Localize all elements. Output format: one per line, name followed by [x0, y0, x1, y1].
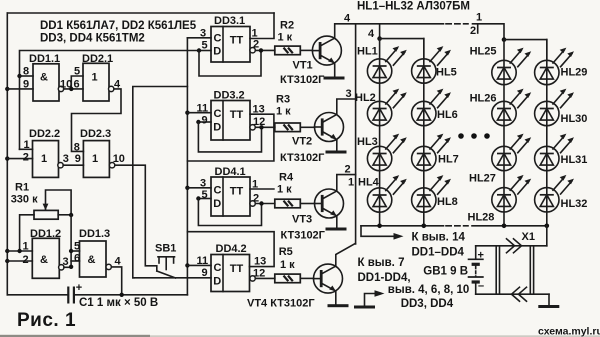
- svg-text:D: D: [213, 198, 221, 210]
- svg-text:HL28: HL28: [468, 212, 495, 224]
- transistor VT3: [315, 189, 344, 218]
- svg-text:выв. 4, 6, 8, 10: выв. 4, 6, 8, 10: [388, 284, 470, 296]
- svg-text:DD1–DD4: DD1–DD4: [412, 247, 465, 259]
- resistor R4: [275, 172, 301, 208]
- ground VT1: [324, 77, 345, 80]
- node: junction dot riser / DD1.3 pin5: [69, 249, 73, 253]
- LED HL28: [492, 175, 531, 212]
- wire: bottom line C1 right plate to clock rail: [74, 294, 187, 296]
- ground VT3: [326, 228, 347, 231]
- svg-text:R1: R1: [15, 182, 29, 194]
- wire: bottom line rail1 to C1 left plate: [7, 294, 68, 296]
- svg-text:2: 2: [253, 39, 259, 51]
- wire: line A from SB1 riser to clock rail (y=86.5): [133, 87, 188, 278]
- node: junction dot rail1 / DD2.2 pin2: [5, 156, 9, 160]
- svg-text:1: 1: [476, 12, 482, 24]
- node: junction dot pin2 node DD3.1: [259, 48, 263, 52]
- svg-text:330 к: 330 к: [11, 194, 38, 206]
- svg-text:1 к: 1 к: [277, 184, 292, 196]
- svg-text:R5: R5: [279, 246, 293, 258]
- wire: DD4.1 pin3 from rail: [187, 187, 211, 189]
- svg-text:D: D: [213, 276, 221, 288]
- svg-text:9: 9: [202, 115, 208, 127]
- svg-text:DD1-DD4,: DD1-DD4,: [358, 272, 411, 284]
- node: junction dot DD1.3 pin4 / bottom line: [120, 293, 124, 297]
- wire: anode bottom bus right part: [472, 225, 547, 227]
- arrowhead of R1 wiper: [43, 204, 49, 211]
- svg-text:DD3, DD4: DD3, DD4: [401, 298, 454, 310]
- svg-text:2: 2: [345, 164, 351, 176]
- svg-text:HL3: HL3: [357, 136, 378, 148]
- svg-text:VT4 КТ3102Г: VT4 КТ3102Г: [247, 298, 315, 310]
- svg-text:КТ3102Г: КТ3102Г: [280, 74, 325, 86]
- svg-text:3: 3: [200, 178, 206, 190]
- svg-text:TT: TT: [230, 35, 244, 47]
- gate DD2.3: [80, 128, 111, 177]
- svg-text:5: 5: [202, 189, 208, 201]
- svg-text:С1 1 мк × 50 В: С1 1 мк × 50 В: [79, 297, 158, 309]
- wire: DD2.2 pin3 to DD2.3 pin9: [63, 164, 83, 166]
- svg-text:DD2.3: DD2.3: [80, 128, 111, 140]
- wire: DD3.1 D feedback loop: [199, 50, 261, 76]
- svg-text:4: 4: [344, 13, 351, 25]
- ellipsis dots between column groups: [458, 133, 490, 139]
- flip-flop DD3.2: [211, 90, 250, 141]
- node: junction dot net4 / columns: [377, 36, 382, 41]
- gate DD1.1: [29, 53, 60, 101]
- svg-text:TT: TT: [230, 186, 244, 198]
- wire: R2 to VT1 base: [300, 49, 312, 51]
- svg-text:GB1 9 В: GB1 9 В: [423, 266, 468, 278]
- X1 top chevron contacts: [507, 239, 522, 253]
- wire: top feedback line from DD3.1 pin1 to left rail: [7, 12, 274, 14]
- gate DD1.3: [79, 228, 110, 277]
- flip-flop DD3.1: [211, 15, 250, 62]
- wire: VT2 collector to bus entry 3: [337, 99, 356, 115]
- node: junction dot rail1 / DD1.2 pin1: [5, 249, 9, 253]
- svg-text:C: C: [214, 262, 222, 274]
- wire: DD4.2 pin13 up to line y=231.7 to rail: [187, 232, 274, 267]
- svg-text:5: 5: [202, 40, 208, 52]
- svg-text:6: 6: [74, 253, 80, 265]
- svg-text:HL8: HL8: [437, 196, 458, 208]
- svg-text:13: 13: [254, 256, 266, 268]
- svg-text:10: 10: [113, 153, 125, 165]
- svg-text:1: 1: [92, 153, 98, 165]
- wire: LED column 1: [379, 39, 381, 226]
- node: junction dot R1-left / pin1: [17, 249, 21, 253]
- inversion circle DD3.2 pin12: [250, 125, 255, 130]
- svg-text:TT: TT: [230, 263, 244, 275]
- wire: DD4.2 pin11 from rail: [187, 264, 211, 266]
- wire: VT4 collector to bus bottom: [336, 244, 356, 267]
- svg-text:3: 3: [200, 28, 206, 40]
- wire: SB1 lower contact line continuing to DD4.2 pin9: [133, 277, 211, 279]
- svg-text:1: 1: [24, 139, 30, 151]
- wire: LED column 7: [503, 40, 505, 226]
- wire: VT2 emitter to ground: [336, 140, 338, 151]
- svg-text:2: 2: [470, 25, 476, 37]
- wire: anode bottom bus dashed break: [446, 225, 468, 227]
- svg-text:3: 3: [63, 153, 69, 165]
- resistor R5: [275, 246, 301, 283]
- svg-text:DD3.1: DD3.1: [214, 15, 245, 27]
- wire: DD3.2 D feedback loop: [198, 122, 261, 152]
- wire: DD1.2 pin3 to riser: [64, 266, 71, 268]
- svg-text:5: 5: [74, 241, 80, 253]
- svg-text:R3: R3: [276, 94, 290, 106]
- X1 bottom chevron contacts: [512, 287, 527, 301]
- node: junction dot riser / pin3: [69, 265, 73, 269]
- svg-text:&: &: [88, 254, 96, 266]
- inversion circle DD2.1 output: [109, 86, 114, 91]
- inversion circle DD1.1 output: [58, 86, 63, 91]
- wire: R3 to VT2 base: [300, 126, 314, 128]
- svg-text:К выв. 14: К выв. 14: [412, 232, 466, 244]
- wire: net 2 stub exit: [477, 24, 479, 33]
- wire: DD4.2 pin12 to R5: [255, 277, 274, 279]
- LED HL25: [492, 48, 531, 85]
- svg-text:DD4.2: DD4.2: [216, 243, 247, 255]
- wire: DD4.1 pin2 to R4: [255, 203, 274, 205]
- svg-text:5: 5: [74, 66, 80, 78]
- svg-text:R4: R4: [279, 172, 294, 184]
- svg-text:1 к: 1 к: [280, 259, 295, 271]
- svg-text:DD1 К561ЛА7, DD2 К561ЛЕ5: DD1 К561ЛА7, DD2 К561ЛЕ5: [40, 20, 197, 32]
- svg-text:HL1–HL32 АЛ307БМ: HL1–HL32 АЛ307БМ: [357, 1, 470, 13]
- node: junction dot rail / DD3.2 pin11: [185, 111, 189, 115]
- transistor VT4: [314, 264, 343, 293]
- wire: DD1.3 pin5 stub: [71, 250, 79, 252]
- svg-text:HL4: HL4: [358, 177, 380, 189]
- wire: anode bottom bus (left solid part): [361, 225, 444, 227]
- wire: LED column 8: [546, 40, 548, 226]
- node: junction dot pin12 node DD3.2: [259, 125, 263, 129]
- node: junction dot R1 right / wiper: [69, 213, 73, 217]
- svg-text:DD2.2: DD2.2: [29, 128, 60, 140]
- svg-text:HL1: HL1: [357, 46, 378, 58]
- node: junction dot column1 / bus: [377, 224, 382, 229]
- svg-text:1: 1: [23, 241, 29, 253]
- svg-text:11: 11: [197, 103, 209, 115]
- svg-text:2: 2: [23, 254, 29, 266]
- wire: bus left end arrow to pin14: [361, 226, 396, 237]
- wire: DD4.1 pin5 stub: [198, 198, 211, 200]
- node: junction dot net1 / columns: [502, 37, 507, 42]
- ground VT2: [326, 151, 347, 154]
- X1 connector plate right pair: [530, 246, 533, 294]
- svg-text:HL6: HL6: [437, 109, 458, 121]
- LED HL1: [367, 46, 406, 83]
- wire: column pair 1-2 top link: [380, 39, 424, 58]
- svg-text:3: 3: [346, 88, 352, 100]
- wire: R5 to VT4 base: [300, 277, 313, 279]
- svg-text:HL30: HL30: [561, 113, 588, 125]
- wire: bus right end down to X1 plus wire: [546, 226, 548, 246]
- flip-flop DD4.2: [211, 243, 250, 292]
- wire: riser x=71.1 down to DD1.2 output node: [70, 215, 72, 267]
- node: junction dot pin10/pin6: [69, 87, 73, 91]
- wire: VT3 emitter to ground: [336, 216, 338, 228]
- svg-text:SB1: SB1: [155, 243, 176, 255]
- node: junction dot pin2 node DD4.1: [259, 201, 263, 205]
- svg-text:VT3: VT3: [292, 214, 312, 226]
- inversion circle DD4.2 pin12: [250, 276, 255, 281]
- svg-text:D: D: [213, 122, 221, 134]
- svg-text:1 к: 1 к: [276, 106, 291, 118]
- flip-flop DD4.1: [211, 166, 250, 216]
- LED HL29: [535, 48, 574, 85]
- svg-text:+: +: [478, 250, 484, 262]
- wire: group bus vertical x=355.6: [355, 24, 357, 244]
- node: junction dot column8 / bus: [545, 224, 550, 229]
- node: junction dot rail / DD4.2 pin11: [185, 263, 189, 267]
- LED HL3: [367, 134, 406, 171]
- svg-text:VT1: VT1: [293, 60, 313, 72]
- wire: VT1 collector to bus entry 4: [335, 24, 356, 38]
- wire: DD2.2 pin1 from rail2: [20, 148, 33, 150]
- svg-text:1: 1: [92, 72, 98, 84]
- inversion circle DD4.1 pin2: [250, 201, 255, 206]
- svg-text:HL5: HL5: [436, 67, 457, 79]
- LED HL26: [492, 89, 531, 126]
- resistor R2: [275, 19, 301, 54]
- node: junction dot D input DD3.2: [196, 120, 200, 124]
- wire: bottom wire to ground: [548, 294, 550, 305]
- wire: DD1.2 pin1: [7, 250, 32, 252]
- ground with arrow to pins text: [354, 290, 385, 308]
- svg-text:13: 13: [253, 104, 265, 116]
- transistor VT1: [312, 36, 341, 65]
- gate DD1.2: [30, 228, 61, 278]
- wire: DD1.3 pin4 down to bottom line: [111, 267, 121, 295]
- svg-text:HL25: HL25: [470, 46, 497, 58]
- svg-text:9: 9: [75, 153, 81, 165]
- node: junction dot D input DD4.1: [196, 196, 200, 200]
- svg-text:C: C: [214, 33, 222, 45]
- node: junction dot rail / DD4.1 pin3: [185, 186, 189, 190]
- LED HL7: [412, 134, 451, 171]
- wire: DD3.2 pin13 to DD4.1 clock line: [187, 114, 274, 161]
- ground at X1: [538, 305, 559, 308]
- wire: clock rail x=187.4: [186, 38, 188, 295]
- svg-text:HL2: HL2: [355, 92, 376, 104]
- wire: X1 bottom wire: [476, 293, 549, 295]
- svg-text:2: 2: [23, 152, 29, 164]
- gate DD2.2: [29, 128, 60, 177]
- LED HL30: [535, 89, 574, 126]
- svg-text:C: C: [214, 185, 222, 197]
- wire: DD1.1 pin9: [7, 88, 33, 90]
- wire: DD2.3 pin10 to SB1 pivot (descends x=145.3): [115, 165, 157, 271]
- svg-text:схема.myl.ru: схема.myl.ru: [538, 326, 600, 337]
- svg-text:–: –: [478, 280, 484, 292]
- svg-text:1: 1: [348, 177, 354, 189]
- wire: DD2.2 pin2 from rail1: [7, 158, 32, 160]
- wire: R1 right terminal: [58, 214, 71, 216]
- svg-text:3: 3: [63, 256, 69, 268]
- svg-text:VT2: VT2: [292, 136, 312, 148]
- svg-text:4: 4: [368, 28, 375, 40]
- LED HL5: [412, 46, 451, 83]
- svg-text:HL32: HL32: [561, 198, 588, 210]
- wire: DD3.1 pin5 stub: [199, 50, 211, 52]
- inversion circle DD3.1 pin2: [250, 48, 255, 53]
- wire: group bus top horizontal (left solid part): [356, 23, 444, 25]
- wire: riser to DD2.1 pin5: [71, 76, 83, 89]
- wire: DD3.2 pin12 to R3: [255, 126, 274, 128]
- ground VT4: [328, 304, 349, 307]
- resistor R1 (variable): [11, 182, 59, 220]
- wire: DD1.1 pin8: [20, 75, 34, 77]
- wire: DD4.1 D feedback loop: [198, 199, 261, 226]
- LED HL8: [412, 175, 451, 212]
- svg-text:1: 1: [41, 153, 47, 165]
- wire: LED column 2: [423, 39, 425, 226]
- svg-text:D: D: [213, 46, 221, 58]
- svg-text:9: 9: [202, 267, 208, 279]
- wire: DD4.1 pin1 stub: [250, 188, 274, 190]
- wire: DD3.2 pin11 from rail: [187, 112, 211, 114]
- LED HL32: [535, 175, 574, 212]
- inversion circle DD1.2 output: [59, 265, 64, 270]
- node: junction dot column7 / bus: [502, 224, 507, 229]
- svg-text:8: 8: [74, 142, 80, 154]
- inversion circle DD2.2 output: [58, 163, 63, 168]
- svg-text:9: 9: [23, 79, 29, 91]
- capacitor C1 (polarized): [68, 282, 82, 304]
- battery GB1: [468, 246, 484, 294]
- LED HL27: [492, 134, 531, 171]
- wire: group bus top dashed break: [446, 23, 468, 25]
- svg-text:HL31: HL31: [561, 154, 588, 166]
- svg-text:HL7: HL7: [438, 154, 459, 166]
- svg-text:DD1.3: DD1.3: [79, 228, 110, 240]
- wire: DD3.1 pin3 from rail: [187, 37, 211, 39]
- svg-text:C: C: [214, 108, 222, 120]
- node: junction dot D input DD3.1: [197, 48, 201, 52]
- svg-text:HL29: HL29: [561, 67, 588, 79]
- svg-text:12: 12: [253, 116, 265, 128]
- svg-text:&: &: [40, 72, 48, 84]
- arrowhead to pin14 text: [394, 233, 404, 240]
- resistor R3: [275, 94, 301, 132]
- wire: R1 left terminal down to DD1.2 pin1: [20, 215, 34, 251]
- inversion circle DD2.3 output: [109, 163, 114, 168]
- LED HL6: [412, 89, 451, 126]
- node: junction dot rail1 / DD1.1 pin9: [5, 87, 9, 91]
- wire: X1 top wire: [476, 245, 547, 247]
- svg-text:Рис. 1: Рис. 1: [17, 310, 76, 331]
- wire: DD3.1 pin2 to R2: [255, 49, 274, 51]
- svg-text:1: 1: [252, 179, 258, 191]
- wire: DD1.1 pin10 to DD2.1 pins 5,6: [64, 88, 83, 90]
- wire: VT1 emitter to ground: [334, 63, 336, 76]
- svg-text:4: 4: [115, 256, 122, 268]
- wire: DD3.1 pin1 to top line: [250, 13, 274, 39]
- switch SB1 (push-button): [155, 243, 176, 279]
- LED HL2: [367, 89, 406, 126]
- wire: R1 wiper arm: [46, 190, 72, 215]
- node: junction dot rail1 / DD1.2 pin2: [5, 259, 9, 263]
- wire: net 4 exit riser to columns 1-2: [379, 24, 381, 39]
- wire: R4 to VT3 base: [300, 203, 314, 205]
- wire: left rail 1 (vertical, x=7.3): [6, 13, 8, 295]
- svg-text:8: 8: [23, 66, 29, 78]
- svg-text:1 к: 1 к: [278, 32, 293, 44]
- svg-text:DD3, DD4 К561ТМ2: DD3, DD4 К561ТМ2: [40, 33, 145, 45]
- svg-text:К выв. 7: К выв. 7: [358, 257, 405, 269]
- wire: DD1.3 pin6 stub: [71, 260, 79, 262]
- node: junction dot rail2 / DD1.1 pin8: [17, 74, 21, 78]
- wire: column pair 7-8 top link: [504, 40, 547, 60]
- svg-text:TT: TT: [230, 109, 244, 121]
- LED HL4: [367, 175, 406, 212]
- wire: VT3 collector to bus entry 2: [337, 175, 356, 191]
- wire: DD2.1 pin4 to DD2.3 pin8: [72, 89, 122, 151]
- X1 connector plate left pair: [496, 246, 499, 294]
- wire: DD1.2 pin2: [7, 260, 32, 262]
- gate DD2.1: [82, 53, 113, 101]
- svg-text:6: 6: [74, 79, 80, 91]
- svg-text:КТ3102Г: КТ3102Г: [281, 230, 326, 242]
- wire: DD3.2 pin9 stub: [198, 121, 211, 123]
- svg-text:X1: X1: [522, 231, 535, 243]
- wire: VT4 emitter to ground: [335, 291, 337, 304]
- svg-text:HL27: HL27: [469, 173, 496, 185]
- svg-text:&: &: [40, 254, 48, 266]
- svg-text:HL26: HL26: [470, 93, 497, 105]
- transistor VT2: [315, 113, 344, 142]
- svg-text:11: 11: [197, 255, 209, 267]
- LED HL31: [535, 134, 574, 171]
- svg-text:R2: R2: [280, 19, 294, 31]
- svg-text:КТ3102Г: КТ3102Г: [280, 152, 325, 164]
- inversion circle DD1.3 output: [106, 264, 111, 269]
- svg-text:+: +: [76, 282, 82, 294]
- wire: left rail 2 with long feed to DD3.1 pin5 (y=50.5): [20, 51, 200, 150]
- wire: group bus top right part to net1 exit: [473, 24, 505, 40]
- node: junction dot column2 / bus: [422, 224, 427, 229]
